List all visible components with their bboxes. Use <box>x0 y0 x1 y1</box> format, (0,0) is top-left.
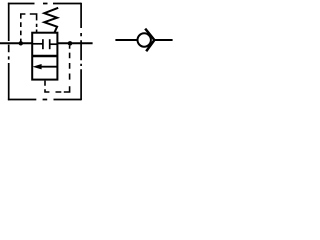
node: junction dot left <box>19 41 23 45</box>
valve position divider <box>32 55 57 57</box>
wire: check valve right lead <box>154 39 172 41</box>
node: junction dot right <box>68 41 73 46</box>
pilot line (dashed, lower loop) <box>45 46 70 92</box>
wire: inlet pipe (left) <box>0 42 32 44</box>
valve body (2-position square) <box>32 33 57 80</box>
check valve seat chevron <box>145 29 154 52</box>
flow-position arrow (left) <box>41 66 57 68</box>
check valve ball <box>138 33 151 46</box>
pilot line (dashed, upper loop) <box>21 14 37 42</box>
enclosure frame bottom edge <box>8 99 81 101</box>
wire: check valve left lead <box>115 39 137 41</box>
enclosure frame right edge <box>80 3 82 101</box>
spring <box>44 8 58 33</box>
wire: outlet pipe (right of valve) <box>58 42 93 44</box>
enclosure frame (phantom dash-dot box), top edge <box>8 3 81 5</box>
enclosure frame left edge <box>8 3 10 101</box>
closed-position blocked ports symbol <box>32 39 57 49</box>
